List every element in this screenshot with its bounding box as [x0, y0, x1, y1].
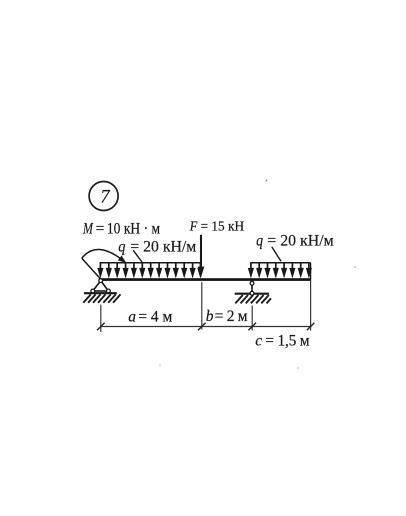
pin support hinge circles	[91, 279, 110, 293]
problem number circle 7	[89, 182, 118, 211]
dimension tick at x=201.8	[198, 323, 206, 331]
pin support (left)	[93, 281, 109, 291]
leader line from right q label	[272, 247, 281, 261]
dimension label b = 2 m	[206, 308, 248, 325]
distributed load q left: arrows	[97, 263, 203, 279]
extension line at left support	[100, 305, 102, 333]
extension line at roller	[251, 306, 253, 331]
dimension tick at x=252.2	[248, 323, 256, 331]
label q = 20 kN/m (right)	[256, 232, 334, 249]
roller support (right)	[251, 283, 253, 293]
extension line under F	[201, 282, 203, 330]
svg-text:q: q	[256, 232, 263, 249]
ground line under pin support	[84, 292, 117, 294]
svg-text:= 20 кН/м: = 20 кН/м	[130, 239, 196, 256]
svg-text:F: F	[189, 220, 198, 235]
moment M curved arrow	[82, 249, 126, 279]
dimension label a = 4 m	[128, 309, 172, 326]
svg-text:b: b	[206, 308, 214, 325]
svg-text:q: q	[118, 239, 125, 256]
distributed load q right: right edge	[310, 263, 312, 279]
label F = 15 kN	[189, 220, 244, 235]
svg-text:= 1,5 м: = 1,5 м	[265, 332, 309, 349]
svg-text:= 4 м: = 4 м	[138, 309, 172, 326]
label M = 10 kN*m	[82, 220, 160, 237]
dimension tick at x=100.8	[97, 323, 105, 331]
svg-text:M: M	[82, 220, 93, 237]
svg-text:=: =	[96, 220, 105, 237]
svg-text:c: c	[255, 332, 262, 349]
force F arrow	[198, 235, 205, 278]
svg-text:= 15 кН: = 15 кН	[201, 220, 245, 235]
svg-text:10 кН · м: 10 кН · м	[107, 220, 160, 237]
ground line under roller support	[235, 293, 269, 295]
beam	[99, 278, 311, 281]
extension line at beam right end	[310, 281, 312, 331]
distributed load q right: top line	[250, 262, 310, 264]
distributed load q left: top line	[100, 262, 202, 264]
svg-text:a: a	[128, 309, 136, 326]
svg-text:= 20 кН/м: = 20 кН/м	[267, 232, 334, 249]
svg-text:= 2 м: = 2 м	[215, 308, 248, 325]
dimension tick at x=310.6	[307, 323, 315, 331]
label q = 20 kN/m (left)	[118, 239, 196, 256]
distributed load q right: arrows	[248, 263, 312, 279]
roller hinge circles	[250, 281, 254, 295]
dimension label c = 1,5 m	[255, 332, 309, 349]
hatching under pin support	[83, 294, 120, 302]
scan specks	[159, 180, 356, 369]
leader line from left q label	[133, 250, 142, 262]
svg-text:7: 7	[100, 187, 110, 207]
dimension line	[101, 326, 311, 328]
hatching under roller support	[235, 295, 271, 303]
